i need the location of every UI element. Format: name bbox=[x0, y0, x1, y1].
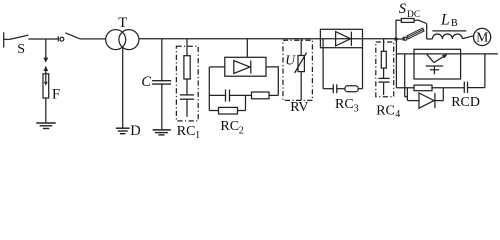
svg-text:D: D bbox=[130, 123, 140, 139]
svg-text:1: 1 bbox=[195, 130, 200, 141]
svg-text:F: F bbox=[52, 86, 60, 102]
svg-text:U: U bbox=[285, 53, 296, 68]
svg-text:RV: RV bbox=[290, 100, 308, 115]
svg-text:L: L bbox=[440, 12, 450, 29]
svg-text:2: 2 bbox=[239, 126, 244, 137]
svg-text:S: S bbox=[17, 42, 25, 57]
svg-text:T: T bbox=[118, 15, 127, 31]
svg-text:C: C bbox=[141, 74, 151, 90]
svg-text:4: 4 bbox=[395, 109, 400, 120]
svg-text:RC: RC bbox=[335, 97, 354, 112]
svg-text:RC: RC bbox=[376, 103, 395, 118]
svg-text:B: B bbox=[451, 18, 458, 29]
svg-text:RCD: RCD bbox=[451, 95, 480, 110]
svg-text:S: S bbox=[399, 1, 407, 17]
svg-text:M: M bbox=[476, 29, 488, 44]
svg-text:RC: RC bbox=[177, 124, 196, 139]
svg-text:3: 3 bbox=[354, 103, 359, 114]
svg-text:DC: DC bbox=[407, 10, 420, 20]
svg-text:RC: RC bbox=[220, 119, 239, 134]
